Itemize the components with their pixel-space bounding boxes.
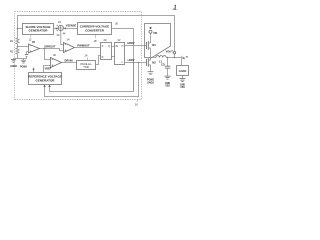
svg-text:18: 18 — [94, 39, 97, 43]
node FB divider tap — [17, 46, 19, 48]
power stage block outline — [145, 24, 171, 58]
svg-text:S: S — [102, 45, 104, 48]
svg-text:TOR: TOR — [83, 65, 89, 69]
wire A1 output to comparator A2 — [40, 49, 64, 51]
resistor R2 — [16, 47, 19, 59]
svg-text:VSS: VSS — [165, 86, 170, 88]
node switch node — [150, 57, 152, 59]
designator 10 chip leader — [136, 100, 138, 102]
svg-text:ERROUT: ERROUT — [45, 44, 56, 48]
svg-text:44: 44 — [63, 31, 66, 35]
svg-text:HDRV: HDRV — [127, 42, 134, 45]
svg-text:GND2: GND2 — [147, 82, 154, 85]
svg-text:GENERATOR: GENERATOR — [36, 78, 56, 82]
arrow Iout — [181, 56, 184, 59]
svg-text:36: 36 — [32, 40, 35, 44]
ground G2 — [23, 59, 25, 61]
battery VREF bias at A1 + input — [27, 51, 29, 53]
oscillator box — [77, 61, 96, 70]
wire ground rail bottom left — [14, 58, 27, 60]
resistor R1 — [16, 37, 19, 47]
svg-text:24: 24 — [85, 54, 88, 58]
op-amp A1 error amp — [29, 44, 40, 53]
wire A2 output to latch — [75, 47, 101, 49]
node summing junction — [58, 25, 63, 30]
wire oscillator to latch — [96, 56, 101, 65]
latch box — [101, 43, 112, 60]
reference voltage generator box — [29, 73, 62, 85]
wire VREF to A3 — [44, 66, 51, 73]
ground under load — [180, 79, 186, 82]
svg-text:GENERATOR: GENERATOR — [29, 29, 49, 33]
svg-text:CO: CO — [161, 64, 165, 67]
IC dashed border — [15, 12, 142, 100]
svg-text:L: L — [122, 61, 124, 64]
wire VREF output arrow — [33, 69, 35, 73]
node FB stub to slope generator — [18, 28, 23, 30]
wire A3 output to oscillator — [62, 62, 77, 64]
svg-text:34: 34 — [57, 33, 60, 37]
svg-text:H: H — [122, 45, 124, 48]
ground under Co — [165, 76, 171, 79]
wire converter input from power stage — [112, 29, 134, 92]
svg-text:VOUT: VOUT — [166, 49, 174, 53]
wire feedback bottom outer — [45, 63, 139, 97]
wire Vout to load — [175, 58, 182, 66]
transistor M1 — [146, 41, 148, 49]
svg-text:30: 30 — [115, 21, 118, 25]
svg-text:M1: M1 — [152, 44, 156, 47]
svg-text:R2: R2 — [10, 51, 14, 54]
svg-text:PWMOUT: PWMOUT — [77, 43, 90, 47]
wire feedback top line — [18, 16, 175, 58]
svg-text:R1: R1 — [10, 40, 14, 43]
svg-text:VIN: VIN — [153, 33, 157, 35]
slope voltage generator box — [23, 24, 54, 35]
svg-text:VSENSE: VSENSE — [66, 24, 77, 28]
svg-text:VSS: VSS — [180, 87, 185, 89]
svg-text:1: 1 — [173, 4, 178, 11]
svg-text:R: R — [102, 56, 104, 59]
svg-text:GND: GND — [165, 83, 170, 85]
svg-text:DRVIN: DRVIN — [64, 59, 72, 63]
capacitor Co — [167, 57, 169, 59]
inductor L1 — [151, 57, 156, 59]
designator 12 slope box leader — [29, 35, 32, 38]
svg-text:VREF: VREF — [45, 67, 52, 70]
wire feedback bottom inner — [50, 63, 134, 92]
node Vout — [174, 57, 176, 59]
svg-text:PGND: PGND — [20, 65, 27, 68]
transistor M2 — [146, 58, 148, 66]
wire summing node down to comparator — [61, 31, 64, 45]
svg-text:Q: Q — [108, 45, 110, 48]
svg-text:20: 20 — [104, 38, 107, 42]
wire slope out to summing node — [54, 28, 57, 30]
svg-text:40: 40 — [53, 53, 56, 57]
svg-text:IN: IN — [116, 45, 119, 48]
svg-text:GND: GND — [180, 84, 185, 86]
svg-text:LOAD: LOAD — [179, 69, 187, 73]
op-amp A2 PWM comparator — [64, 43, 75, 53]
op-amp A3 — [51, 58, 62, 68]
wire A1 output down to A3 input — [45, 49, 51, 60]
svg-text:22: 22 — [118, 38, 121, 42]
svg-text:14: 14 — [67, 38, 70, 42]
wire HG gate drive — [125, 45, 147, 47]
svg-text:IO: IO — [186, 57, 189, 59]
ground under M2 — [148, 72, 154, 75]
svg-text:10: 10 — [135, 103, 139, 107]
svg-text:16: 16 — [58, 20, 61, 24]
svg-text:AGND: AGND — [10, 65, 17, 68]
driver box — [115, 43, 125, 65]
svg-text:CONVERTER: CONVERTER — [85, 28, 105, 32]
svg-text:M2: M2 — [152, 61, 156, 64]
load box — [177, 66, 189, 76]
wire converter out to summing node — [66, 28, 78, 30]
current-voltage converter box — [78, 23, 112, 35]
designator 18 converter leader — [95, 35, 97, 39]
ground G1 — [13, 58, 15, 61]
wire LG gate drive — [125, 62, 147, 64]
VIN terminal — [149, 27, 151, 29]
wire latch to driver — [112, 46, 115, 48]
